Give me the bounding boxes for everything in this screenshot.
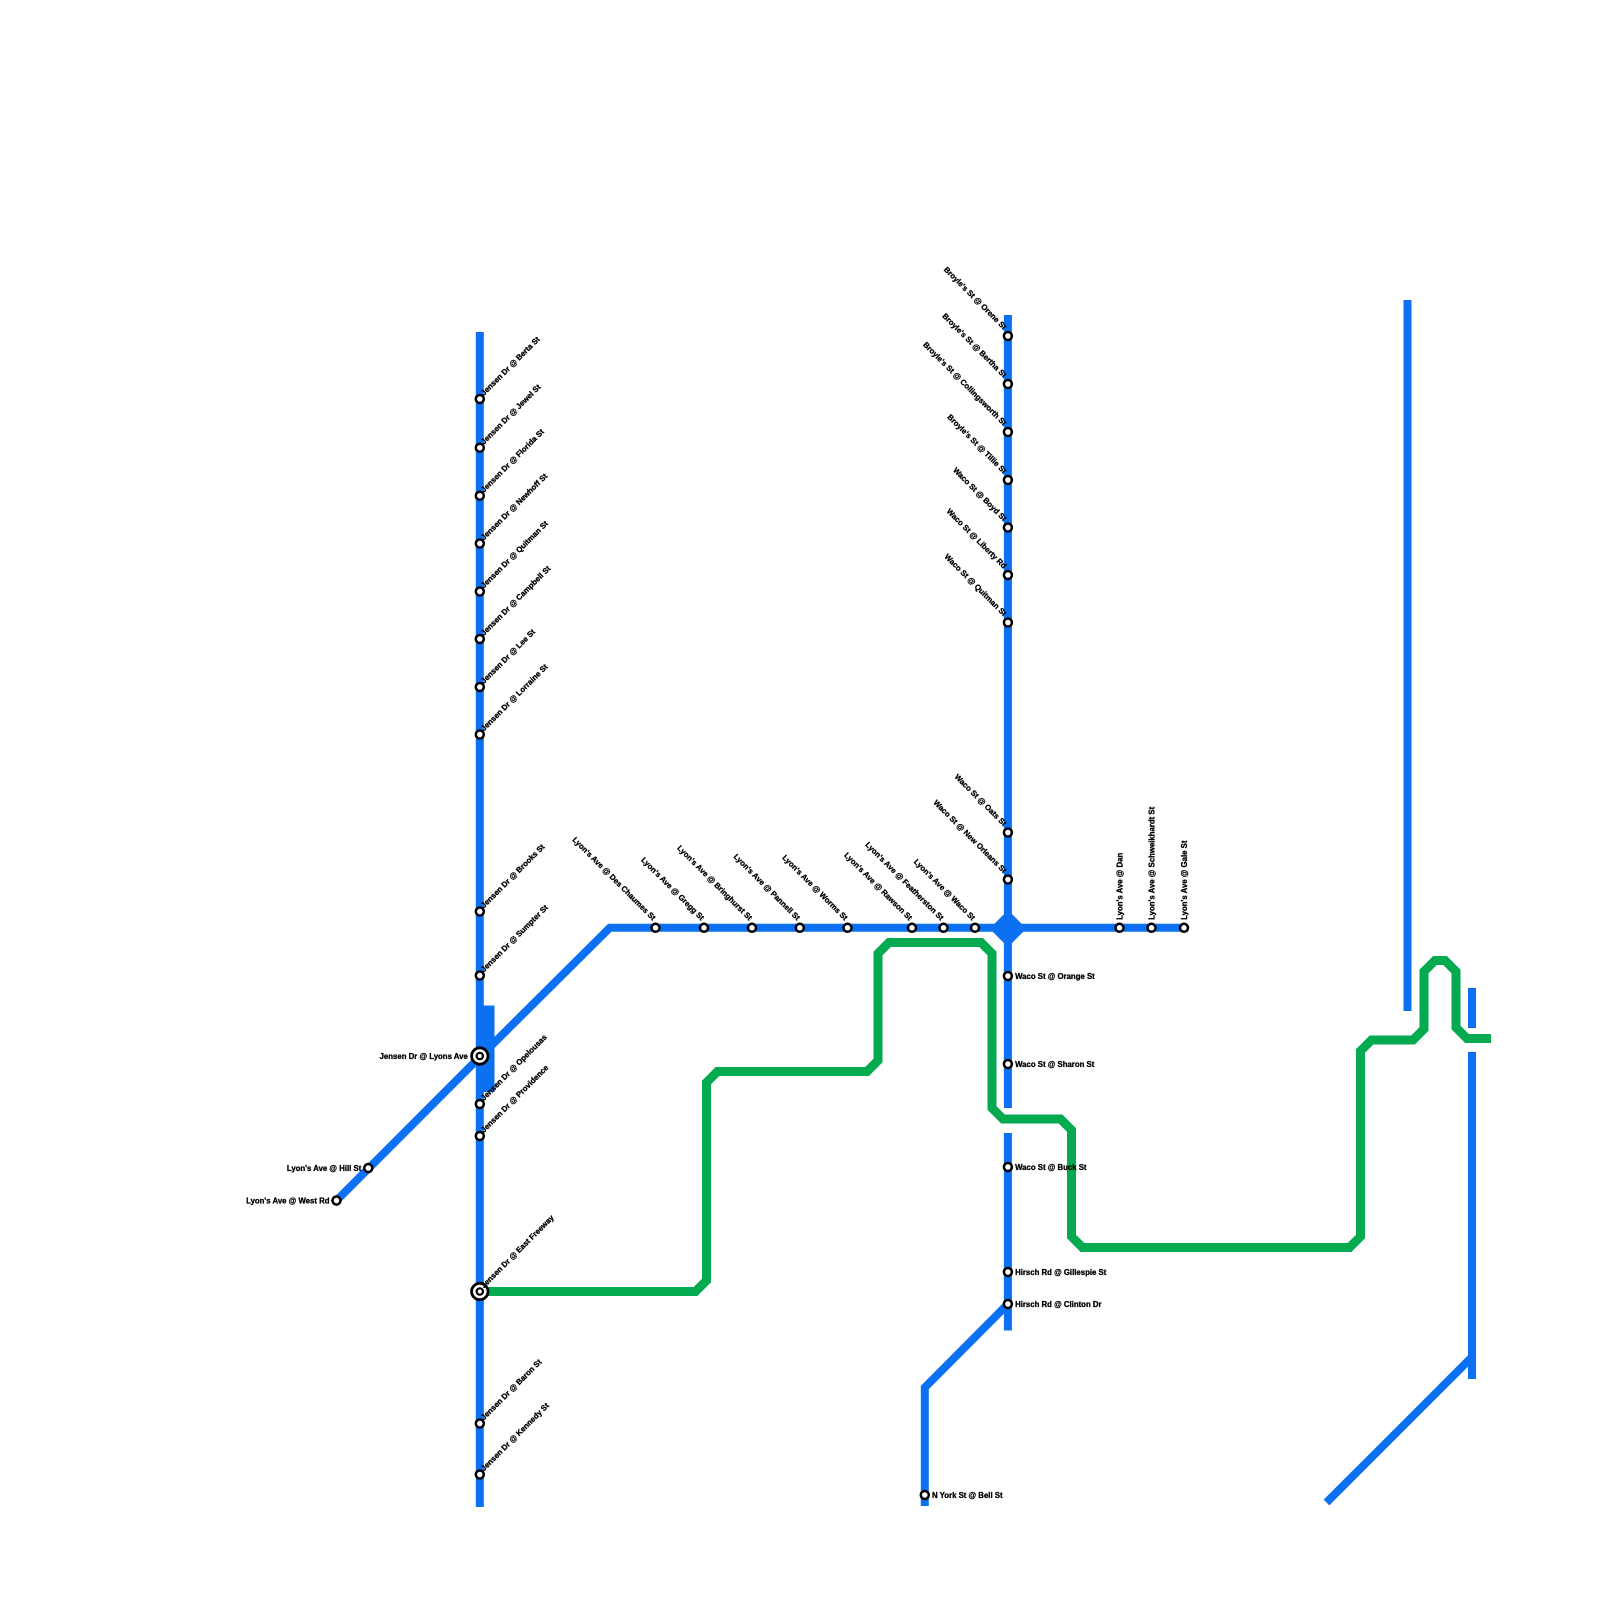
svg-text:Waco St @ Buck St: Waco St @ Buck St — [1015, 1163, 1087, 1172]
svg-text:Waco St @ Orange St: Waco St @ Orange St — [1015, 972, 1095, 981]
node: interchange Jensen/Lyons double circle — [472, 1048, 488, 1064]
svg-text:Lyon's Ave @ Hill St: Lyon's Ave @ Hill St — [287, 1164, 362, 1173]
svg-text:Lyon's Ave @ West Rd: Lyon's Ave @ West Rd — [246, 1197, 330, 1206]
svg-text:N York St @ Bell St: N York St @ Bell St — [932, 1491, 1003, 1500]
stations: small dots — [333, 332, 1189, 1499]
green route (East Freeway - Waco loop) — [481, 943, 1491, 1292]
wire: right vertical 2 lower — [1468, 1052, 1476, 1379]
svg-text:Waco St @ Sharon St: Waco St @ Sharon St — [1015, 1060, 1095, 1069]
svg-text:Jensen Dr @ Lyons Ave: Jensen Dr @ Lyons Ave — [380, 1052, 469, 1061]
wire: right vertical 2 upper — [1468, 988, 1476, 1028]
wire: Clinton diagonal to N York — [925, 1304, 1008, 1506]
wire: Waco St vertical upper — [1004, 315, 1012, 1108]
wire: right vertical 1 — [1404, 300, 1412, 1011]
wire: Hirsch Rd vertical lower — [1004, 1133, 1012, 1331]
wire: jog stub at Jensen junction — [484, 1006, 495, 1093]
svg-text:Lyon's Ave @ Schweikhardt St: Lyon's Ave @ Schweikhardt St — [1148, 806, 1157, 919]
svg-text:Lyon's Ave @ Dan: Lyon's Ave @ Dan — [1116, 852, 1125, 919]
node: interchange diamond Lyons/Waco — [990, 910, 1027, 947]
svg-text:Lyon's Ave @ Gale St: Lyon's Ave @ Gale St — [1180, 840, 1189, 920]
node: interchange Jensen/East Freeway double circle — [472, 1283, 488, 1299]
wire: Lyons Ave horizontal and diagonal — [334, 928, 1186, 1204]
svg-text:Hirsch Rd @ Clinton Dr: Hirsch Rd @ Clinton Dr — [1015, 1300, 1101, 1309]
svg-text:Hirsch Rd @ Gillespie St: Hirsch Rd @ Gillespie St — [1015, 1268, 1107, 1277]
wire: right diagonal terminal — [1327, 1357, 1473, 1503]
wire: Jensen Dr vertical line — [476, 332, 484, 1507]
